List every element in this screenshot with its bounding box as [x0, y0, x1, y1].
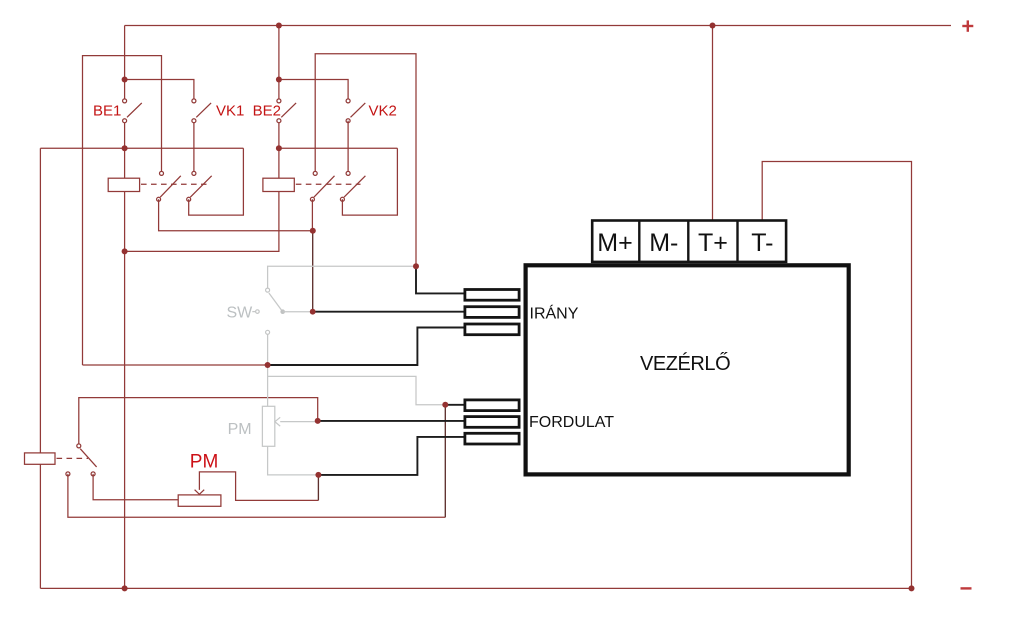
wire BE2 lower to rail2: [278, 121, 280, 179]
node top rail / BE2: [276, 23, 282, 29]
svg-text:VEZÉRLŐ: VEZÉRLŐ: [640, 352, 730, 375]
wire gray wiper line: [280, 421, 318, 423]
wire gray branch to FORDULAT node: [268, 376, 446, 404]
contact K1b: [187, 171, 212, 201]
dashed link K1: [141, 183, 207, 185]
wire black to IRANY pin1: [416, 266, 464, 293]
wire left drop lower (coil PM to bottom rail): [39, 464, 41, 588]
node bottom rail right riser: [909, 585, 915, 591]
connector IRANY pin2: [465, 307, 519, 318]
wire coil1 lower long drop to bottom rail: [124, 192, 126, 589]
node FORDULAT1: [442, 402, 448, 408]
wire + supply top rail: [125, 25, 951, 27]
switch VK1: [192, 99, 211, 123]
svg-text:BE2: BE2: [253, 102, 281, 119]
contact PM relay: [66, 444, 97, 476]
wire - bottom rail: [40, 587, 911, 589]
controller box U1: [526, 265, 849, 474]
relay coil K1: [108, 178, 139, 191]
switch BE2: [277, 99, 296, 123]
node rail1 BE1: [122, 145, 128, 151]
wire dark riser to gray pot node: [317, 475, 319, 501]
wire T- to right rail: [762, 162, 911, 589]
wire BE1 column upper: [124, 26, 126, 101]
connector FORDULAT pin3: [465, 433, 519, 444]
wire box2 outline: [315, 54, 416, 267]
node BE1/VK1 feed: [122, 77, 128, 83]
wire dark riser to FORDULAT node: [444, 405, 446, 518]
wire contact K2b bottom loop: [342, 148, 397, 215]
node pot bottom / FORDULAT3: [315, 472, 321, 478]
connector IRANY pin1: [465, 290, 519, 301]
wiper arrow PM gray: [275, 417, 280, 426]
wire black to FORDULAT pin3: [318, 437, 463, 475]
wire PM wiper path: [199, 472, 318, 501]
svg-text:T+: T+: [698, 229, 728, 257]
contact K2a: [310, 171, 334, 201]
relay coil K2: [263, 178, 294, 191]
svg-text:IRÁNY: IRÁNY: [530, 304, 579, 323]
switch VK2: [346, 99, 365, 123]
wire coil1 feed upper: [124, 148, 126, 178]
node wiper / FORDULAT2: [315, 418, 321, 424]
wire contact K1a bottom to node: [159, 199, 313, 230]
wire VK1 lower to contact B1: [193, 121, 195, 174]
contact K2b: [340, 171, 365, 201]
potentiometer PM red: [178, 495, 221, 506]
wire black to IRANY pin2: [313, 311, 464, 313]
wire gray SW top link: [268, 266, 416, 290]
svg-text:M+: M+: [597, 229, 632, 257]
svg-text:T-: T-: [751, 229, 773, 257]
wire VK1 feed: [125, 80, 194, 101]
node top rail / T+: [710, 23, 716, 29]
wire contact K2a bottom to node: [311, 199, 313, 230]
switch BE1: [123, 99, 142, 123]
svg-text:BE1: BE1: [93, 102, 121, 119]
svg-text:M-: M-: [649, 229, 678, 257]
wire black to FORDULAT pin1: [445, 404, 463, 406]
dashed link K2: [296, 183, 361, 185]
switch SW gray: [266, 288, 285, 334]
node BE2/VK2 feed: [276, 77, 282, 83]
wire gray pot bottom link: [268, 446, 319, 475]
svg-text:FORDULAT: FORDULAT: [529, 414, 614, 431]
wire T+ drop: [712, 26, 714, 220]
wire y251 link: [125, 192, 279, 252]
wire VK2 lower to contact B2: [347, 121, 349, 174]
wire left drop upper (rail1 to coil PM): [39, 148, 41, 453]
node bottom rail BE1 column: [122, 585, 128, 591]
potentiometer PM gray: [262, 406, 274, 446]
svg-text:VK2: VK2: [369, 102, 397, 119]
wire gray SW pivot to node: [283, 311, 313, 313]
svg-text:VK1: VK1: [216, 102, 244, 119]
svg-text:SW: SW: [227, 305, 254, 322]
wire PM relay contact-a loop: [68, 474, 445, 517]
node SW bottom / IRANY3: [265, 362, 271, 368]
wire black to IRANY pin3: [268, 328, 464, 366]
wiper arrow PM red: [195, 490, 205, 495]
node y251 junction: [122, 248, 128, 254]
wire dark drop to SW node: [312, 231, 314, 312]
wire BE1 lower to rail1: [124, 121, 126, 149]
wire black to FORDULAT pin2: [318, 420, 464, 422]
connector FORDULAT pin2: [465, 417, 519, 428]
dashed link PM relay: [57, 457, 89, 459]
terminal strip: [592, 220, 786, 262]
node gray top / box2: [413, 263, 419, 269]
node K1a/K2a junction: [310, 228, 316, 234]
wire gray SW bottom drop to pot top: [267, 334, 269, 406]
svg-text:PM: PM: [228, 421, 252, 438]
wire PM relay contact-b to pot: [93, 474, 178, 500]
label SW gray: [227, 305, 260, 322]
wire VK2 feed: [279, 80, 348, 101]
- symbol: [961, 587, 972, 589]
+ symbol: [962, 20, 973, 31]
svg-text:PM: PM: [190, 451, 219, 472]
wire rail1: [40, 147, 243, 149]
wire BE2 column upper: [278, 26, 280, 101]
connector IRANY pin3: [465, 324, 519, 335]
node SW pivot out: [310, 309, 316, 315]
node rail2 BE2: [276, 145, 282, 151]
wire PM relay feed: [79, 398, 318, 444]
wire rail2: [279, 147, 398, 149]
connector FORDULAT pin1: [465, 400, 519, 411]
wire contact K1b bottom loop: [189, 148, 244, 215]
contact K1a: [157, 171, 181, 201]
relay coil PM: [25, 453, 56, 464]
wire box1 outline: [83, 56, 162, 365]
wire red segment to SW node: [83, 364, 268, 366]
